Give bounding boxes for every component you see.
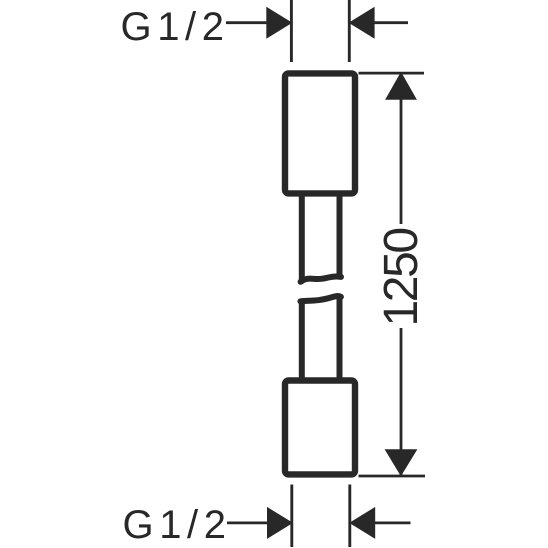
svg-text:1250: 1250 [375,229,428,327]
svg-text:G1/2: G1/2 [121,5,225,49]
svg-text:G1/2: G1/2 [123,503,227,547]
